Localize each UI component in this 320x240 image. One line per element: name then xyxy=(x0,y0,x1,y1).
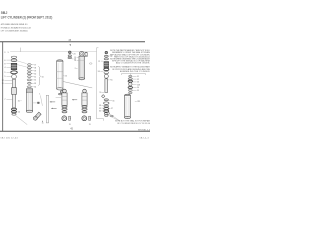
svg-text:57: 57 xyxy=(34,64,36,66)
svg-text:15: 15 xyxy=(89,124,91,126)
svg-text:60: 60 xyxy=(34,73,36,75)
svg-text:15: 15 xyxy=(69,124,71,126)
svg-text:16: 16 xyxy=(74,60,76,62)
svg-text:HYDRAULIC EXCAVATOR ZX200LC-5B: HYDRAULIC EXCAVATOR ZX200LC-5B xyxy=(1,26,31,29)
svg-text:53: 53 xyxy=(137,82,139,84)
svg-text:LIFT CYLINDER (2) (FROM SEPT.: LIFT CYLINDER (2) (FROM SEPT. 2012) xyxy=(1,16,53,20)
svg-text:57: 57 xyxy=(98,61,100,63)
svg-text:OF CYLINDER REF NO.57 58 59 60: OF CYLINDER REF NO.57 58 59 60 xyxy=(117,123,150,125)
svg-text:5BJ: 5BJ xyxy=(1,11,8,15)
svg-text:56: 56 xyxy=(112,100,114,102)
svg-text:15: 15 xyxy=(42,122,44,124)
svg-text:54: 54 xyxy=(137,87,139,89)
svg-text:5BJ 200 12-04: 5BJ 200 12-04 xyxy=(1,137,18,139)
svg-text:62: 62 xyxy=(34,80,36,82)
svg-text:58: 58 xyxy=(98,71,100,73)
svg-text:19: 19 xyxy=(74,57,76,59)
svg-text:55: 55 xyxy=(137,90,139,92)
svg-text:*56: *56 xyxy=(110,56,113,58)
svg-text:58: 58 xyxy=(34,67,36,69)
svg-text:58: 58 xyxy=(99,105,101,107)
svg-text:20: 20 xyxy=(73,53,75,55)
svg-text:56: 56 xyxy=(42,76,44,78)
svg-text:61: 61 xyxy=(34,76,36,78)
svg-text:60: 60 xyxy=(99,111,101,113)
svg-text:2: 2 xyxy=(75,68,76,70)
svg-text:52: 52 xyxy=(137,79,139,81)
svg-text:LIFT CYLINDER ASSY 4653BJ00: LIFT CYLINDER ASSY 4653BJ00 xyxy=(1,30,29,33)
svg-text:AND CYLINDER FOR THE ORDER.: AND CYLINDER FOR THE ORDER. xyxy=(116,62,150,65)
svg-text:5BJ-2-4: 5BJ-2-4 xyxy=(140,137,149,139)
svg-text:APPLICABLE MACHINE SERIAL NO.: APPLICABLE MACHINE SERIAL NO. xyxy=(1,23,28,26)
svg-text:248: 248 xyxy=(137,84,140,86)
svg-text:64: 64 xyxy=(34,87,36,89)
svg-text:57: 57 xyxy=(111,108,113,110)
svg-text:55: 55 xyxy=(99,92,101,94)
svg-text:ASSEMBLING THE CYLINDER.: ASSEMBLING THE CYLINDER. xyxy=(120,70,150,73)
svg-text:63: 63 xyxy=(34,83,36,85)
svg-text:25: 25 xyxy=(65,76,67,78)
svg-text:239: 239 xyxy=(137,101,140,103)
svg-text:16: 16 xyxy=(37,103,39,105)
svg-text:*55: *55 xyxy=(110,80,113,82)
svg-text:59: 59 xyxy=(34,70,36,72)
svg-text:SHO5BJ-2-4: SHO5BJ-2-4 xyxy=(138,130,150,132)
svg-text:59: 59 xyxy=(99,108,101,110)
svg-text:51: 51 xyxy=(137,76,139,78)
